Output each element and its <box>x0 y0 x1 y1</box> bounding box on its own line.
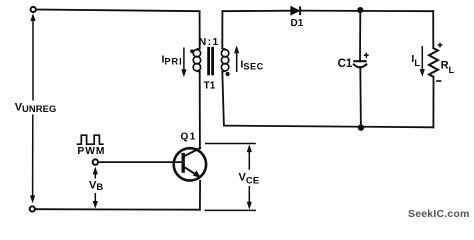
node junction bottom <box>358 124 364 130</box>
svg-text:IL: IL <box>411 53 420 68</box>
RL minus sign <box>436 80 441 82</box>
svg-text:RL: RL <box>441 60 455 76</box>
svg-text:D1: D1 <box>291 18 304 29</box>
svg-text:VUNREG: VUNREG <box>15 101 57 114</box>
svg-text:N:1: N:1 <box>199 37 220 48</box>
transformer T1 primary winding <box>193 49 200 72</box>
C1 plus sign <box>364 53 369 58</box>
wire top rail right of diode <box>301 10 433 13</box>
RL plus sign <box>438 43 443 48</box>
svg-text:Q1: Q1 <box>180 132 196 143</box>
secondary polarity dot <box>226 72 230 76</box>
svg-text:T1: T1 <box>204 81 216 92</box>
node junction top <box>357 7 363 13</box>
I_L arrow <box>420 46 425 77</box>
input terminal bottom <box>30 206 35 211</box>
wire top rail right <box>222 10 291 13</box>
svg-text:ISEC: ISEC <box>240 58 263 71</box>
capacitor C1 <box>353 61 367 67</box>
wire C1 bottom lead <box>359 67 362 127</box>
wire secondary top lead <box>221 11 223 48</box>
wire primary top lead <box>199 11 201 48</box>
I_SEC arrow <box>234 45 239 72</box>
wire base <box>99 161 182 163</box>
svg-text:IPRI: IPRI <box>162 54 183 67</box>
svg-text:VCE: VCE <box>239 172 260 186</box>
wire collector <box>199 72 201 148</box>
wire RL bottom lead <box>432 77 434 128</box>
svg-text:VB: VB <box>89 179 103 192</box>
wire C1 top lead <box>359 10 361 60</box>
resistor RL <box>429 48 438 77</box>
V_CE arrow <box>247 144 252 209</box>
svg-text:C1: C1 <box>338 58 353 70</box>
PWM waveform icon <box>77 135 104 144</box>
wire top rail left <box>37 10 200 12</box>
PWM input node <box>93 159 98 164</box>
primary polarity dot <box>190 49 194 53</box>
input terminal top <box>31 7 36 12</box>
I_PRI arrow <box>181 48 186 78</box>
wire output bottom rail <box>224 126 434 128</box>
svg-text:PWM: PWM <box>77 146 105 157</box>
transistor Q1 <box>174 148 206 181</box>
V_UNREG arrow <box>30 13 36 203</box>
svg-text:SeekIC.com: SeekIC.com <box>408 208 470 220</box>
wire emitter <box>199 181 201 210</box>
transformer T1 secondary winding <box>221 49 228 72</box>
diode D1 <box>291 6 300 15</box>
wire bottom rail <box>36 208 200 211</box>
wire RL top lead <box>432 11 434 48</box>
transformer T1 core <box>209 47 213 76</box>
V_CE bottom reference line <box>205 209 256 211</box>
wire secondary bottom lead <box>222 72 224 126</box>
V_CE top reference line <box>205 143 256 145</box>
V_B arrow <box>93 167 98 209</box>
